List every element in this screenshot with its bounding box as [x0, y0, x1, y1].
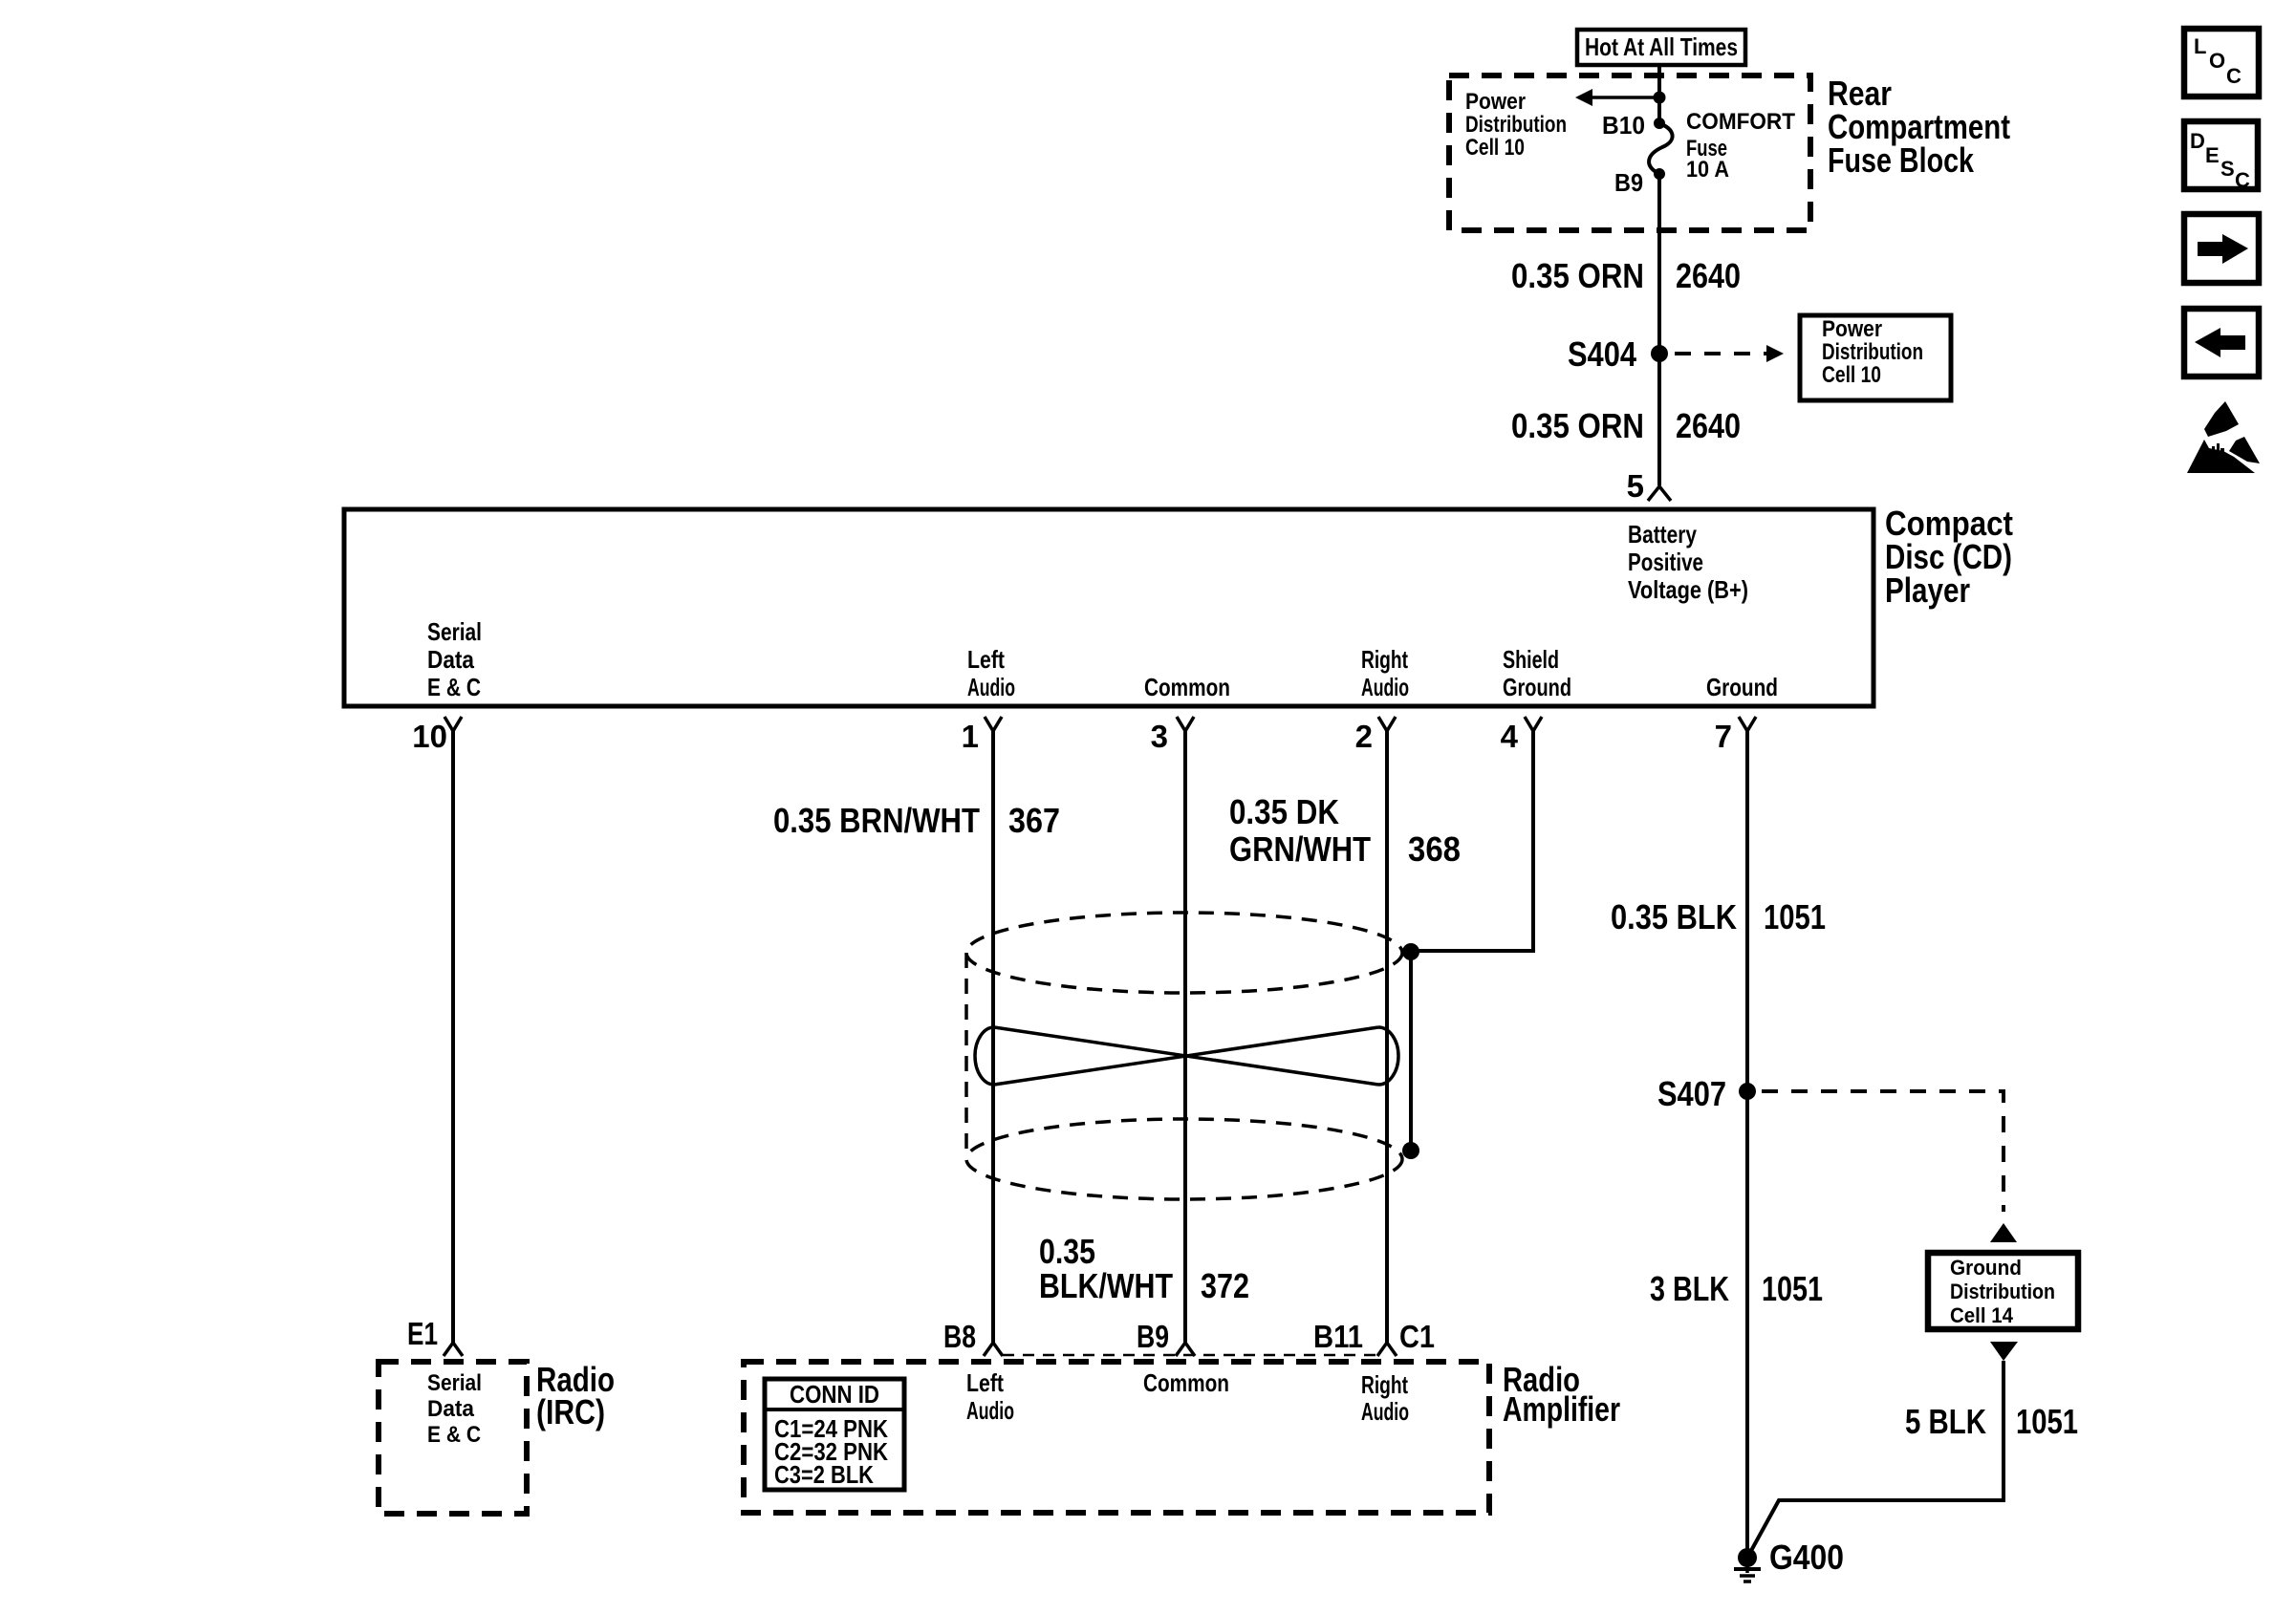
svg-text:B8: B8: [943, 1319, 976, 1354]
svg-text:1: 1: [962, 719, 979, 754]
svg-text:E & C: E & C: [427, 1422, 481, 1448]
svg-text:0.35 ORN: 0.35 ORN: [1511, 406, 1644, 445]
icon LOC: [2184, 29, 2259, 97]
svg-text:10 A: 10 A: [1686, 157, 1729, 183]
pin 5 connector at CD player: [1627, 468, 1671, 504]
label Left Audio (amplifier): [966, 1368, 1014, 1425]
label Right Audio (CD player): [1361, 645, 1409, 701]
shield left dashed side: [964, 953, 968, 1159]
svg-text:0.35 DK: 0.35 DK: [1229, 792, 1339, 831]
svg-text:Positive: Positive: [1628, 548, 1703, 576]
svg-text:C1: C1: [1399, 1319, 1435, 1354]
icon DESC: [2184, 121, 2258, 192]
icon arrow right: [2184, 214, 2259, 283]
svg-text:368: 368: [1408, 829, 1461, 869]
svg-text:5 BLK: 5 BLK: [1905, 1402, 1986, 1441]
svg-text:1051: 1051: [1764, 897, 1826, 936]
wire Ground Distribution Cell 14 to G400: [1747, 1342, 2018, 1558]
pin B11 C1 connector: [1313, 1319, 1435, 1356]
svg-text:Audio: Audio: [966, 1396, 1014, 1425]
svg-text:0.35 BRN/WHT: 0.35 BRN/WHT: [773, 801, 980, 840]
wire pin 3 to B9: [1183, 731, 1187, 1343]
node S407: [1657, 1074, 1756, 1113]
svg-text:7: 7: [1715, 719, 1732, 754]
component Compact Disc (CD) Player box: [344, 509, 1874, 706]
label Battery Positive Voltage (B+): [1628, 520, 1748, 604]
svg-text:S407: S407: [1657, 1074, 1726, 1113]
wire pin 2 to B11: [1385, 731, 1389, 1343]
label Ground (CD player pin 7): [1706, 673, 1778, 701]
ref box Power Distribution Cell 10: [1800, 315, 1951, 400]
pin B8 connector: [943, 1319, 1003, 1356]
svg-text:Common: Common: [1143, 1368, 1229, 1397]
wire label 3 BLK 1051: [1650, 1269, 1823, 1308]
svg-text:Ground: Ground: [1503, 673, 1571, 701]
svg-text:Common: Common: [1144, 673, 1230, 701]
svg-text:Cell 10: Cell 10: [1822, 362, 1881, 388]
svg-text:(IRC): (IRC): [536, 1392, 605, 1431]
svg-text:D: D: [2190, 129, 2205, 153]
svg-text:O: O: [2209, 49, 2225, 73]
label Radio (IRC): [536, 1360, 615, 1431]
svg-text:BLK/WHT: BLK/WHT: [1039, 1266, 1173, 1305]
label Compact Disc (CD) Player: [1885, 504, 2013, 610]
svg-text:B11: B11: [1313, 1319, 1363, 1354]
svg-text:B9: B9: [1137, 1319, 1169, 1354]
wire label 0.35 ORN 2640 (lower): [1511, 406, 1741, 445]
label Rear Compartment Fuse Block: [1828, 74, 2010, 180]
node shield to pin 4: [1402, 943, 1419, 960]
svg-text:E: E: [2205, 143, 2220, 167]
connector dashed line B8 to C1: [1003, 1354, 1377, 1357]
svg-text:Left: Left: [966, 1368, 1004, 1397]
label Shield Ground (CD player): [1503, 645, 1571, 701]
svg-text:Distribution: Distribution: [1950, 1280, 2055, 1303]
svg-text:B9: B9: [1614, 168, 1643, 197]
svg-text:2: 2: [1355, 719, 1373, 754]
label Common (amplifier): [1143, 1368, 1229, 1397]
wire label 0.35 BRN/WHT 367: [773, 801, 1060, 840]
svg-text:Battery: Battery: [1628, 520, 1697, 549]
svg-text:Left: Left: [967, 645, 1005, 674]
svg-text:367: 367: [1008, 801, 1060, 840]
icon arrow left: [2184, 309, 2259, 377]
fuse block: Rear Compartment Fuse Block dashed box: [1449, 75, 1810, 230]
svg-text:C: C: [2226, 64, 2242, 88]
component Radio (IRC) dashed box: [379, 1362, 527, 1514]
svg-text:G400: G400: [1769, 1538, 1844, 1577]
dashed arrow S404 to Power Distribution Cell 10: [1675, 345, 1784, 362]
svg-text:Voltage (B+): Voltage (B+): [1628, 575, 1748, 604]
svg-text:Serial: Serial: [427, 1370, 482, 1396]
svg-text:1051: 1051: [2016, 1402, 2078, 1441]
svg-text:Serial: Serial: [427, 617, 482, 646]
svg-text:3 BLK: 3 BLK: [1650, 1269, 1729, 1308]
svg-text:GRN/WHT: GRN/WHT: [1229, 829, 1371, 869]
svg-text:Ground: Ground: [1950, 1256, 2022, 1280]
wire B9 to CD player pin 5: [1657, 174, 1661, 485]
pin B9 connector (amplifier): [1137, 1319, 1195, 1356]
svg-text:3: 3: [1151, 719, 1168, 754]
wire label 0.35 BLK 1051: [1611, 897, 1826, 936]
svg-text:Distribution: Distribution: [1822, 339, 1923, 365]
ref box Ground Distribution Cell 14: [1928, 1253, 2078, 1329]
svg-text:Power: Power: [1822, 316, 1882, 342]
label Power Distribution Cell 10 (in fuse block): [1465, 89, 1567, 161]
svg-text:Right: Right: [1361, 645, 1408, 674]
shield drain wire: [1409, 952, 1413, 1151]
wire label 5 BLK 1051: [1905, 1402, 2078, 1441]
svg-text:L: L: [2194, 34, 2206, 58]
svg-text:Cell 14: Cell 14: [1950, 1303, 2014, 1327]
svg-text:Fuse Block: Fuse Block: [1828, 140, 1975, 180]
svg-text:Player: Player: [1885, 570, 1970, 610]
svg-text:1051: 1051: [1762, 1269, 1823, 1308]
svg-text:0.35 ORN: 0.35 ORN: [1511, 256, 1644, 295]
pin B10: [1602, 111, 1665, 140]
svg-text:4: 4: [1501, 719, 1519, 754]
label Serial Data E & C (CD player): [427, 617, 482, 701]
svg-text:0.35 BLK: 0.35 BLK: [1611, 897, 1737, 936]
ground G400: [1734, 1538, 1844, 1582]
node shield bottom: [1402, 1142, 1419, 1159]
svg-text:Right: Right: [1361, 1370, 1408, 1399]
svg-text:C: C: [2235, 168, 2250, 192]
component Radio Amplifier dashed box: [744, 1362, 1489, 1513]
shield top dashed ellipse: [966, 913, 1402, 993]
svg-text:372: 372: [1201, 1266, 1249, 1305]
wire from Hot At All Times into fuse block: [1657, 65, 1661, 123]
node junction to Power Distribution arrow: [1654, 92, 1666, 104]
pin 10 connector: [412, 717, 462, 754]
svg-text:2640: 2640: [1676, 406, 1741, 445]
svg-text:Distribution: Distribution: [1465, 112, 1567, 138]
svg-text:E & C: E & C: [427, 673, 481, 701]
CONN ID table: [765, 1379, 904, 1490]
label Left Audio (CD player): [967, 645, 1015, 701]
svg-text:Data: Data: [427, 645, 474, 674]
pin B9: [1614, 168, 1665, 197]
pin 1 connector: [962, 717, 1002, 754]
svg-text:E1: E1: [407, 1316, 438, 1351]
svg-text:Audio: Audio: [1361, 673, 1409, 701]
wire label 0.35 ORN 2640 (upper): [1511, 256, 1741, 295]
wire label 0.35 DK GRN/WHT 368: [1229, 792, 1461, 869]
wire label 0.35 BLK/WHT 372: [1039, 1232, 1249, 1305]
pin E1 connector: [407, 1316, 463, 1356]
svg-text:C3=2 BLK: C3=2 BLK: [774, 1460, 874, 1489]
svg-text:Audio: Audio: [967, 673, 1015, 701]
svg-text:10: 10: [412, 719, 447, 754]
icon ESD warning: [2187, 401, 2260, 473]
svg-text:Audio: Audio: [1361, 1397, 1409, 1426]
svg-text:B10: B10: [1602, 111, 1645, 140]
shield bottom dashed ellipse: [966, 1119, 1402, 1199]
svg-text:Ground: Ground: [1706, 673, 1778, 701]
svg-text:CONN ID: CONN ID: [790, 1380, 879, 1409]
svg-text:S404: S404: [1568, 334, 1636, 374]
svg-text:Amplifier: Amplifier: [1503, 1389, 1620, 1429]
svg-text:Data: Data: [427, 1396, 475, 1422]
svg-text:S: S: [2220, 157, 2235, 181]
svg-text:5: 5: [1627, 468, 1644, 504]
svg-text:0.35: 0.35: [1039, 1232, 1095, 1271]
wire pin 1 to B8: [991, 731, 995, 1343]
pin 4 connector: [1501, 717, 1542, 754]
wire pin 10 to E1: [451, 731, 455, 1343]
pin 3 connector: [1151, 717, 1194, 754]
fuse F COMFORT 10A element: [1649, 123, 1673, 174]
dashed wire S407 to Ground Distribution Cell 14: [1762, 1091, 2017, 1242]
svg-text:Cell 10: Cell 10: [1465, 135, 1525, 161]
svg-text:COMFORT: COMFORT: [1686, 109, 1795, 135]
wire pin 7 ground to G400: [1745, 731, 1749, 1558]
svg-text:Shield: Shield: [1503, 645, 1559, 674]
twisted pair symbol: [975, 1027, 1398, 1085]
label Serial Data E & C (radio): [427, 1370, 482, 1448]
node S404: [1568, 334, 1668, 374]
label Radio Amplifier: [1503, 1360, 1620, 1429]
label Common (CD player): [1144, 673, 1230, 701]
label Right Audio (amplifier): [1361, 1370, 1409, 1426]
label COMFORT Fuse 10 A: [1686, 109, 1795, 183]
pin 7 connector: [1715, 717, 1756, 754]
pin 2 connector: [1355, 717, 1396, 754]
svg-text:Power: Power: [1465, 89, 1526, 115]
svg-text:2640: 2640: [1676, 256, 1741, 295]
svg-text:Hot At All Times: Hot At All Times: [1585, 32, 1738, 61]
label Hot At All Times: [1577, 30, 1745, 65]
wire pin 4 shield ground: [1411, 731, 1533, 951]
wire arrow to Power Distribution Cell 10 (left): [1575, 89, 1659, 106]
